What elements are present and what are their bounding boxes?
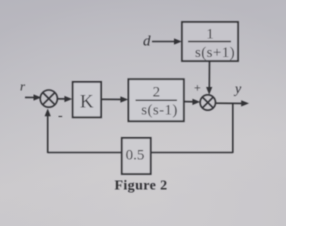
summing junction 1	[40, 90, 57, 107]
svg-text:s(s+1): s(s+1)	[195, 45, 235, 61]
block 1/s(s+1)	[182, 22, 238, 61]
wire: junction1 to K	[57, 98, 67, 100]
wire: input d arrow	[152, 41, 176, 43]
svg-text:Figure 2: Figure 2	[114, 179, 167, 194]
wire: input r arrow	[25, 96, 36, 98]
svg-text:K: K	[80, 92, 94, 113]
block K	[73, 82, 101, 117]
svg-text:d: d	[143, 34, 151, 50]
svg-text:0.5: 0.5	[126, 148, 145, 164]
wire: plant to junction 2	[184, 101, 195, 103]
svg-text:-: -	[58, 109, 63, 124]
wire: K to plant block	[101, 98, 123, 100]
svg-text:s(s-1): s(s-1)	[141, 103, 178, 119]
wire: output y	[216, 102, 244, 104]
svg-text:y: y	[233, 82, 242, 97]
wire: feedback tap from output	[232, 103, 234, 153]
block G(s)=2/s(s-1)	[128, 79, 183, 121]
wire: disturbance drop to junction 2	[208, 61, 210, 89]
wire: feedback horizontal	[48, 152, 233, 154]
svg-text:1: 1	[206, 27, 214, 43]
svg-text:+: +	[194, 81, 201, 95]
svg-text:2: 2	[153, 85, 161, 101]
block 0.5	[122, 138, 151, 174]
wire: riser to summing junction 1	[47, 114, 49, 153]
summing junction 2	[200, 95, 215, 110]
